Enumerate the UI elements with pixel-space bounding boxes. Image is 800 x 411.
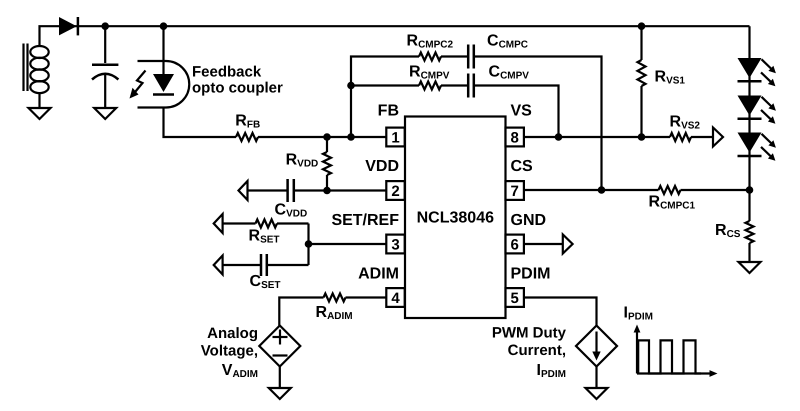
wire VADIM to ground: [279, 367, 281, 389]
junction (RVS1 top): [638, 22, 646, 30]
ground (bulk capacitor): [94, 108, 116, 119]
junction (RVDD top): [323, 133, 331, 141]
svg-text:PDIM: PDIM: [511, 266, 551, 283]
wire RCMPV to CCMPV: [441, 84, 467, 86]
junction (CCMPV drop on VS): [555, 133, 563, 141]
wire ADIM net: [279, 298, 323, 326]
svg-text:Analog: Analog: [207, 325, 258, 342]
capacitor (bulk output): [92, 26, 118, 108]
pin 2 box: [386, 181, 404, 200]
svg-text:GND: GND: [511, 212, 547, 229]
wire IPDIM to ground: [595, 367, 597, 389]
pin 5 box: [506, 288, 524, 307]
voltage source VADIM: [259, 326, 300, 367]
junction (RCMPV tap): [347, 82, 355, 90]
wire top rail: [40, 26, 750, 46]
pin 1 box: [386, 128, 404, 147]
wire opto anode: [162, 26, 164, 74]
svg-text:ADIM: ADIM: [358, 266, 399, 283]
ground (VADIM): [269, 388, 291, 399]
waveform IPDIM axes: [634, 325, 718, 377]
svg-text:2: 2: [391, 183, 399, 200]
resistor RCMPC1: [659, 186, 681, 194]
svg-text:3: 3: [391, 236, 399, 253]
svg-text:4: 4: [391, 290, 400, 307]
pin 4 box: [386, 288, 404, 307]
terminal arrow (CSET): [214, 256, 223, 275]
junction (CS sense node): [746, 186, 754, 194]
junction (compensation riser on FB): [347, 133, 355, 141]
junction (RVDD bottom): [323, 187, 331, 195]
wire PDIM net: [524, 298, 597, 326]
ground (IPDIM): [586, 388, 608, 399]
junction (SET node): [305, 240, 313, 248]
wire CCMPC to pin 7 net: [475, 57, 602, 191]
opto coupler photodiode: [153, 74, 174, 95]
svg-text:Current,: Current,: [508, 342, 566, 359]
svg-text:FB: FB: [378, 103, 399, 120]
terminal arrow (GND): [563, 235, 573, 254]
resistor RVS2: [670, 133, 691, 141]
pin 7 box: [506, 181, 524, 200]
svg-text:6: 6: [511, 236, 519, 253]
LED D4: [738, 133, 762, 157]
capacitor CVDD: [288, 179, 294, 202]
resistor RVDD: [323, 137, 331, 191]
capacitor CCMPC: [468, 45, 474, 69]
svg-text:opto coupler: opto coupler: [192, 80, 283, 97]
resistor RCS: [746, 190, 754, 262]
LED D4 arrows: [761, 134, 776, 161]
capacitor CSET: [261, 254, 267, 276]
terminal arrow (RSET): [214, 214, 223, 233]
waveform IPDIM pulses: [638, 340, 701, 373]
svg-text:7: 7: [511, 183, 519, 200]
wire GND pin 6: [524, 243, 563, 245]
ground (transformer): [29, 108, 51, 119]
wire FB net: [164, 108, 237, 138]
terminal arrow (VDD): [239, 181, 248, 200]
IC U1 NCL38046: [405, 117, 506, 319]
wire RSET row: [223, 222, 256, 224]
wire SET riser: [307, 224, 309, 266]
capacitor CCMPV: [468, 74, 474, 98]
resistor RVS1: [638, 26, 646, 137]
wire SET/REF net: [309, 243, 387, 245]
wire CS pin 7 net: [524, 189, 659, 191]
wire CSET to SET node: [268, 264, 309, 266]
junction (RVS1 bottom): [638, 133, 646, 141]
junction (opto coupler branch): [160, 22, 168, 30]
resistor RSET: [256, 220, 277, 228]
svg-text:Voltage,: Voltage,: [201, 343, 258, 360]
svg-text:NCL38046: NCL38046: [417, 210, 494, 227]
LED D3: [738, 96, 762, 119]
wire VDD net: [248, 189, 287, 191]
opto coupler package: [138, 61, 190, 108]
svg-text:1: 1: [391, 129, 399, 146]
LED D2: [738, 58, 762, 81]
resistor RFB: [236, 133, 258, 141]
wire RVS2 to terminal: [691, 136, 713, 138]
svg-text:CS: CS: [511, 158, 534, 175]
svg-text:PWM Duty: PWM Duty: [492, 325, 567, 342]
svg-text:5: 5: [511, 290, 519, 307]
svg-text:VDD: VDD: [365, 158, 399, 175]
pin 6 box: [506, 235, 524, 254]
terminal arrow (RVS2): [713, 128, 723, 147]
wire CSET row: [223, 264, 260, 266]
LED D2 arrows: [761, 59, 776, 86]
wire RSET to SET node: [277, 222, 309, 224]
wire compensation riser: [351, 57, 419, 138]
diode D1: [59, 17, 78, 35]
wire RCMPV row: [351, 84, 419, 86]
resistor RCMPV: [419, 82, 441, 90]
resistor RCMPC2: [419, 53, 441, 61]
pin 3 box: [386, 235, 404, 254]
wire VDD to pin 2: [295, 189, 386, 191]
wire RADIM to pin 4: [346, 296, 387, 298]
transformer winding L1: [24, 44, 49, 94]
svg-text:SET/REF: SET/REF: [331, 212, 399, 229]
svg-text:Feedback: Feedback: [192, 64, 262, 81]
resistor RADIM: [324, 294, 346, 302]
wire transformer to ground: [38, 93, 40, 109]
ground (RCS): [739, 262, 761, 273]
pin 8 box: [506, 128, 524, 147]
junction (bulk capacitor tap): [101, 22, 109, 30]
wire FB net to pin 1: [258, 136, 386, 138]
svg-text:VS: VS: [511, 103, 533, 120]
wire LED string: [748, 26, 750, 190]
junction (CCMPC drop): [598, 186, 606, 194]
wire VS net: [524, 136, 670, 138]
opto coupler light arrow: [130, 71, 146, 99]
wire RCMPC2 to CCMPC: [441, 55, 467, 57]
wire CCMPV to VS net: [475, 86, 559, 138]
current source IPDIM: [576, 326, 617, 367]
LED D3 arrows: [761, 97, 776, 124]
svg-text:8: 8: [511, 129, 519, 146]
wire RCMPC1 to CS node: [681, 189, 750, 191]
